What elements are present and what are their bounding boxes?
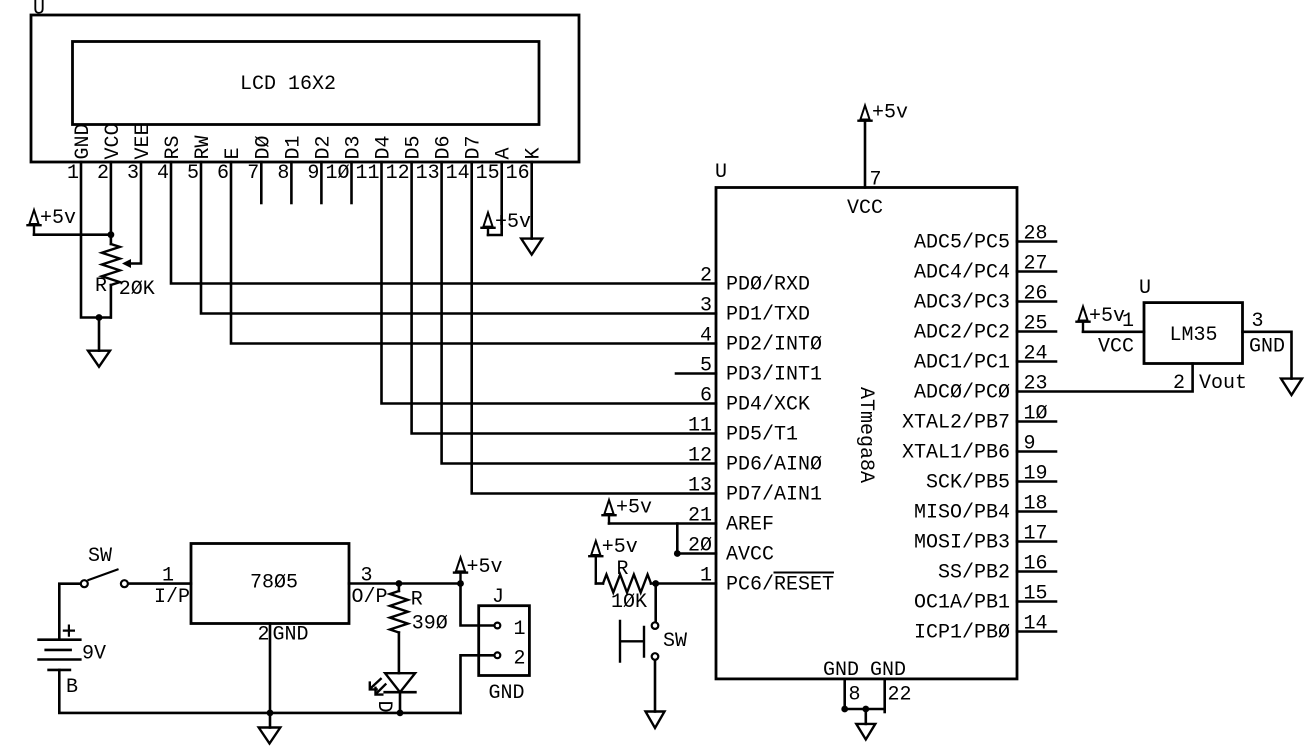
pot wiper arrowhead: [122, 259, 131, 268]
wire LCD pin15 A down to +5v: [488, 162, 502, 235]
wire LCD pin7 D0 stub: [260, 162, 263, 203]
wire R390 top lead: [398, 584, 401, 592]
svg-text:3: 3: [700, 295, 712, 318]
pushbutton SW actuator: [620, 621, 644, 662]
svg-text:XTAL1/PB6: XTAL1/PB6: [902, 442, 1010, 465]
svg-text:8: 8: [849, 684, 861, 707]
switch SW1 terminal right: [121, 580, 128, 587]
wire 10K left lead: [596, 582, 603, 585]
svg-text:9V: 9V: [82, 643, 106, 666]
switch SW1 terminal left: [81, 580, 88, 587]
svg-text:J: J: [492, 586, 504, 609]
svg-text:PC6/RESET: PC6/RESET: [726, 574, 834, 597]
wire battery + to switch: [59, 584, 79, 640]
svg-text:D6: D6: [433, 135, 456, 159]
svg-text:2: 2: [1173, 372, 1185, 395]
wire ATmega right stub pin ADC3/PC3: [1017, 300, 1056, 303]
svg-text:DØ: DØ: [252, 135, 275, 159]
wire pot ground stem: [98, 318, 101, 351]
wire ATmega right stub pin MOSI/PB3: [1017, 540, 1056, 543]
svg-text:12: 12: [688, 445, 712, 468]
svg-text:VCC: VCC: [847, 197, 883, 220]
wire battery - to bottom rail: [59, 670, 460, 713]
svg-text:VCC: VCC: [1098, 336, 1134, 359]
svg-text:XTAL2/PB7: XTAL2/PB7: [902, 412, 1010, 435]
svg-text:15: 15: [476, 162, 500, 185]
wire pot bottom lead: [110, 285, 113, 318]
wire R390 to LED: [398, 633, 401, 674]
svg-text:D7: D7: [463, 135, 486, 159]
svg-text:R: R: [411, 589, 423, 612]
wire LCD pin5 RW to ATmega PD1: [201, 162, 716, 314]
connector J pin1 circle: [495, 623, 501, 629]
battery B plate 1 (long): [39, 638, 81, 641]
svg-text:E: E: [222, 147, 245, 159]
battery B plate 3 (long): [39, 658, 81, 661]
svg-text:7: 7: [870, 169, 882, 192]
svg-text:K: K: [523, 147, 546, 159]
wire LCD pin16 K down to ground: [530, 162, 533, 239]
wire LCD pin3 VEE down to pot wiper: [126, 162, 141, 264]
wire LCD pin2 VCC down to +5v rail: [110, 162, 113, 235]
wire ATmega pin8 GND down: [843, 679, 846, 709]
ground below reset switch: [646, 712, 665, 729]
svg-text:39Ø: 39Ø: [412, 613, 448, 636]
svg-text:MISO/PB4: MISO/PB4: [914, 502, 1010, 525]
svg-text:13: 13: [688, 475, 712, 498]
svg-text:LM35: LM35: [1170, 324, 1218, 347]
wire ATmega pin23 ADC0 to LM35 Vout: [1017, 364, 1193, 392]
svg-text:D: D: [372, 701, 395, 713]
svg-text:ATmega8A: ATmega8A: [854, 387, 877, 483]
svg-text:+5v: +5v: [467, 556, 503, 579]
svg-text:A: A: [493, 147, 516, 159]
wire ATmega right stub pin XTAL1/PB6: [1017, 450, 1056, 453]
power +5v at reset pull-up: [589, 536, 638, 584]
switch SW terminal top: [652, 622, 659, 629]
svg-text:R: R: [95, 275, 107, 298]
svg-text:+5v: +5v: [495, 211, 531, 234]
svg-text:ADC2/PC2: ADC2/PC2: [914, 322, 1010, 345]
svg-text:D1: D1: [282, 135, 305, 159]
power +5v at LM35 VCC: [1077, 305, 1126, 332]
switch SW terminal bottom: [652, 653, 659, 660]
svg-text:1ØK: 1ØK: [611, 591, 647, 614]
wire ATmega pin7 VCC to +5v: [864, 121, 867, 188]
wire ATmega right stub pin SS/PB2: [1017, 570, 1056, 573]
resistor R 390 body: [390, 591, 408, 633]
ground below 7805: [259, 728, 281, 744]
LED light arrow 1: [370, 679, 381, 690]
junction node AVCC: [674, 550, 681, 557]
wire LED cathode to rail: [399, 692, 402, 713]
power +5v at ATmega pin 7: [859, 102, 909, 125]
svg-text:PD6/AINØ: PD6/AINØ: [726, 454, 822, 477]
svg-text:+5v: +5v: [872, 102, 908, 125]
wire ATmega right stub pin MISO/PB4: [1017, 510, 1056, 513]
svg-text:1Ø: 1Ø: [325, 162, 349, 185]
svg-text:U: U: [715, 161, 727, 184]
wire LCD pin6 E to ATmega PD2: [231, 162, 716, 344]
junction node RESET: [652, 580, 659, 587]
IC U2 ATmega8A box: [716, 188, 1017, 679]
LED light arrow 2: [376, 684, 386, 694]
wire 7805 ground stem: [269, 713, 272, 728]
wire 10K right lead: [651, 582, 716, 585]
svg-text:2: 2: [700, 265, 712, 288]
svg-text:PDØ/RXD: PDØ/RXD: [726, 274, 810, 297]
svg-text:PD4/XCK: PD4/XCK: [726, 394, 810, 417]
wire LCD pin11 D4 to ATmega PD4: [382, 162, 717, 404]
svg-text:D3: D3: [343, 135, 366, 159]
resistor R 20K potentiometer body: [102, 244, 120, 285]
svg-text:D4: D4: [373, 135, 396, 159]
wire LCD pin8 D1 stub: [290, 162, 293, 203]
wire +5v to J pin1: [461, 584, 495, 626]
svg-text:2ØK: 2ØK: [119, 278, 155, 301]
svg-text:78Ø5: 78Ø5: [250, 572, 298, 595]
svg-text:6: 6: [700, 385, 712, 408]
wire ATmega right stub pin XTAL2/PB7: [1017, 420, 1056, 423]
wire ATmega right stub pin ICP1/PB0: [1017, 630, 1056, 633]
wire GND pins tie: [845, 708, 885, 711]
svg-text:2: 2: [514, 648, 526, 671]
svg-text:16: 16: [506, 162, 530, 185]
svg-text:11: 11: [355, 162, 379, 185]
wire ATmega ground stem: [864, 709, 867, 724]
ground at LM35: [1281, 379, 1302, 395]
svg-text:GND: GND: [72, 123, 95, 159]
wire J pin2 to ground rail: [461, 655, 495, 713]
svg-text:9: 9: [307, 162, 319, 185]
svg-text:SCK/PB5: SCK/PB5: [926, 472, 1010, 495]
LED D cathode bar: [385, 691, 416, 694]
IC 7805 regulator box: [191, 544, 349, 624]
junction node LED on rail: [397, 710, 404, 717]
junction node pot bottom / ground: [96, 314, 103, 321]
svg-text:D5: D5: [403, 135, 426, 159]
svg-text:VEE: VEE: [132, 123, 155, 159]
switch SW1 lever: [89, 570, 118, 581]
wire LCD pin9 D2 stub: [320, 162, 323, 203]
wire LCD pin13 D6 to ATmega PD6: [442, 162, 716, 464]
wire RESET to switch: [654, 584, 657, 622]
svg-text:GND: GND: [870, 659, 906, 682]
connector J pin2 circle: [495, 652, 501, 658]
svg-text:1: 1: [67, 162, 79, 185]
connector J box: [479, 606, 530, 676]
wire switch to ground: [654, 661, 657, 712]
wire ATmega right stub pin SCK/PB5: [1017, 480, 1056, 483]
svg-text:22: 22: [888, 684, 912, 707]
overline on RESET: [775, 572, 834, 574]
wire LCD pin12 D5 to ATmega PD5: [412, 162, 716, 434]
power +5v at LCD pin A: [482, 211, 532, 235]
svg-text:RW: RW: [192, 135, 215, 159]
svg-text:RS: RS: [162, 135, 185, 159]
svg-text:11: 11: [688, 415, 712, 438]
svg-text:GND: GND: [489, 682, 525, 705]
svg-text:GND: GND: [1249, 336, 1285, 359]
svg-text:ADC1/PC1: ADC1/PC1: [914, 352, 1010, 375]
svg-text:3: 3: [127, 162, 139, 185]
wire +5v rail to VCC junction: [34, 233, 111, 236]
svg-text:ADC5/PC5: ADC5/PC5: [914, 232, 1010, 255]
svg-text:4: 4: [700, 325, 712, 348]
wire LM35 GND to ground: [1243, 332, 1292, 379]
svg-text:GND: GND: [823, 659, 859, 682]
svg-text:SS/PB2: SS/PB2: [938, 562, 1010, 585]
svg-text:8: 8: [277, 162, 289, 185]
wire LCD pin14 D7 to ATmega PD7: [472, 162, 716, 494]
power +5v at LCD pins 1-2: [28, 207, 77, 235]
battery B plate 4 (short): [49, 669, 70, 672]
svg-text:6: 6: [217, 162, 229, 185]
svg-text:1: 1: [1122, 310, 1134, 333]
wire 7805 output to +5v: [349, 582, 461, 585]
svg-text:ICP1/PBØ: ICP1/PBØ: [914, 622, 1010, 645]
svg-text:+5v: +5v: [616, 497, 652, 520]
svg-text:12: 12: [386, 162, 410, 185]
svg-text:+5v: +5v: [40, 207, 76, 230]
wire LCD pin1 GND down to pot bottom rail: [81, 162, 111, 318]
wire ATmega right stub pin ADC4/PC4: [1017, 270, 1056, 273]
ground below ATmega: [856, 724, 875, 740]
svg-text:AVCC: AVCC: [726, 544, 774, 567]
svg-text:PD5/T1: PD5/T1: [726, 424, 798, 447]
wire ATmega pin22 GND down: [883, 679, 886, 712]
junction node 7805 gnd on rail: [267, 710, 274, 717]
svg-text:PD3/INT1: PD3/INT1: [726, 364, 822, 387]
svg-text:SW: SW: [88, 545, 112, 568]
svg-text:I/P: I/P: [154, 586, 190, 609]
svg-text:GND: GND: [273, 624, 309, 647]
IC U LCD module outer box: [31, 15, 579, 162]
svg-text:VCC: VCC: [102, 123, 125, 159]
svg-text:O/P: O/P: [352, 586, 388, 609]
svg-text:2: 2: [257, 624, 269, 647]
svg-text:OC1A/PB1: OC1A/PB1: [914, 592, 1010, 615]
svg-text:1: 1: [514, 618, 526, 641]
wire ATmega right stub pin OC1A/PB1: [1017, 600, 1056, 603]
junction node VCC/pot top: [108, 231, 115, 238]
svg-text:13: 13: [416, 162, 440, 185]
svg-text:PD1/TXD: PD1/TXD: [726, 304, 810, 327]
ground below pot: [88, 351, 110, 367]
svg-text:ADC3/PC3: ADC3/PC3: [914, 292, 1010, 315]
svg-text:Vout: Vout: [1199, 372, 1247, 395]
svg-text:U: U: [1139, 277, 1151, 300]
svg-text:R: R: [617, 558, 629, 581]
svg-text:MOSI/PB3: MOSI/PB3: [914, 532, 1010, 555]
wire ATmega right stub pin ADC2/PC2: [1017, 330, 1056, 333]
wire LCD pin10 D3 stub: [350, 162, 353, 203]
svg-text:ADC4/PC4: ADC4/PC4: [914, 262, 1010, 285]
IC U LCD display inner box: [73, 42, 540, 125]
ground at LCD pin K: [521, 239, 542, 255]
svg-text:1: 1: [162, 565, 174, 588]
wire pot top lead: [110, 235, 113, 244]
battery B plate 2 (short): [46, 649, 71, 652]
svg-text:3: 3: [1252, 310, 1264, 333]
wire ATmega right stub pin ADC5/PC5: [1017, 240, 1056, 243]
svg-text:D2: D2: [312, 135, 335, 159]
wire ATmega right stub pin ADC1/PC1: [1017, 360, 1056, 363]
svg-text:PD7/AIN1: PD7/AIN1: [726, 484, 822, 507]
wire AREF rail: [609, 522, 716, 525]
svg-text:ADCØ/PCØ: ADCØ/PCØ: [914, 382, 1010, 405]
junction node +5v output: [457, 580, 464, 587]
wire AREF-AVCC tie: [677, 524, 716, 554]
svg-text:PD2/INTØ: PD2/INTØ: [726, 334, 822, 357]
svg-text:14: 14: [446, 162, 470, 185]
wire LCD pin4 RS to ATmega PD0: [171, 162, 716, 284]
wire ATmega pin5 PD3 stub: [676, 372, 716, 375]
wire switch to 7805 input: [129, 582, 191, 585]
svg-text:LCD 16X2: LCD 16X2: [240, 73, 336, 96]
resistor R 10K body: [603, 575, 651, 593]
power +5v at AREF: [603, 497, 653, 524]
svg-text:4: 4: [157, 162, 169, 185]
svg-text:2: 2: [97, 162, 109, 185]
svg-text:5: 5: [187, 162, 199, 185]
wire LM35 VCC: [1083, 330, 1144, 333]
svg-text:+5v: +5v: [1089, 305, 1125, 328]
wire 7805 GND to rail: [269, 624, 272, 713]
junction node pin8 gnd: [841, 706, 848, 713]
junction node gnd stem: [862, 706, 869, 713]
svg-text:U: U: [33, 0, 45, 21]
svg-text:AREF: AREF: [726, 514, 774, 537]
LED D anode triangle: [385, 673, 415, 692]
svg-text:+5v: +5v: [602, 536, 638, 559]
junction node LED resistor tap: [396, 580, 403, 587]
battery B plus sign: [64, 626, 74, 636]
svg-text:7: 7: [247, 162, 259, 185]
IC U3 LM35 box: [1144, 303, 1243, 364]
svg-text:B: B: [66, 676, 78, 699]
power +5v at 7805 output: [454, 556, 503, 584]
svg-text:SW: SW: [663, 630, 687, 653]
